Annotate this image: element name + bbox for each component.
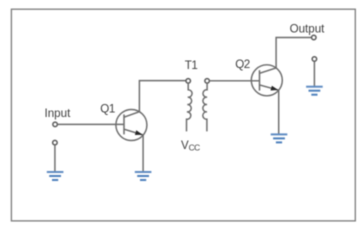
node Output terminal bbox=[312, 35, 317, 40]
svg-text:Output: Output bbox=[290, 22, 326, 35]
svg-text:VCC: VCC bbox=[181, 140, 200, 153]
transistor Q2 bbox=[251, 65, 282, 96]
svg-text:Q2: Q2 bbox=[235, 58, 250, 71]
ground (input) bbox=[47, 171, 64, 181]
wire Input to Q1 base bbox=[57, 123, 124, 125]
inductor T1 primary winding bbox=[187, 83, 193, 131]
ground (output) bbox=[306, 86, 323, 96]
node input ground terminal bbox=[53, 140, 58, 145]
wire Q1 emitter down bbox=[142, 135, 144, 172]
ground (Q2 emitter) bbox=[271, 133, 288, 143]
inductor T1 secondary winding bbox=[203, 83, 207, 131]
node output ground terminal bbox=[312, 57, 317, 62]
node Input terminal bbox=[53, 122, 58, 127]
wire Q1 collector up to node bbox=[139, 81, 186, 112]
svg-text:Input: Input bbox=[45, 107, 72, 120]
node T1 secondary top bbox=[205, 79, 210, 84]
node T1 primary top bbox=[186, 79, 191, 84]
svg-text:T1: T1 bbox=[185, 59, 198, 72]
ground (Q1 emitter) bbox=[135, 171, 152, 181]
wire output ground lead bbox=[313, 61, 315, 86]
transistor Q1 bbox=[116, 110, 147, 141]
wire Q2 emitter down bbox=[278, 90, 280, 134]
svg-text:Q1: Q1 bbox=[100, 103, 115, 116]
wire T1 secondary to Q2 base bbox=[209, 80, 259, 82]
wire Q2 collector to Output bbox=[276, 38, 312, 68]
wire input ground lead bbox=[54, 145, 56, 172]
